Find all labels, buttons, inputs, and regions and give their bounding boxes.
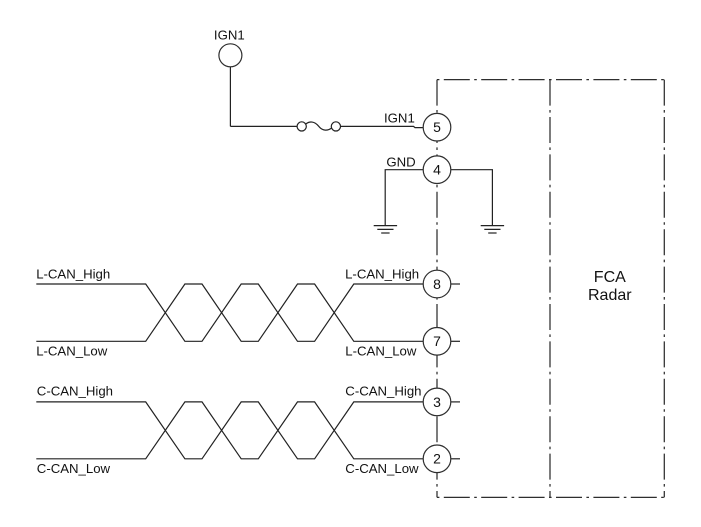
- pin 8: [423, 270, 451, 298]
- pin 4: [423, 156, 451, 184]
- svg-text:Radar: Radar: [588, 287, 632, 304]
- svg-text:IGN1: IGN1: [214, 27, 245, 42]
- svg-text:C-CAN_High: C-CAN_High: [37, 383, 113, 398]
- FCA Radar module outline (dash-dot box): [437, 80, 664, 498]
- power source IGN1 circle: [219, 44, 242, 67]
- wire IGN1 down: [229, 67, 231, 127]
- svg-text:IGN1: IGN1: [384, 111, 415, 126]
- wire stub pin 3: [451, 401, 460, 403]
- wire C-CAN_Low (twisted pair lower): [36, 402, 423, 459]
- pin 3: [423, 388, 451, 416]
- wire L-CAN_Low (twisted pair lower): [36, 284, 423, 341]
- fuse F1 (fusible link): [297, 122, 340, 131]
- svg-text:C-CAN_Low: C-CAN_Low: [345, 461, 419, 476]
- wire fuse to pin 5: [341, 126, 424, 127]
- wire stub pin 7: [451, 340, 460, 342]
- label FCA Radar: [588, 269, 632, 304]
- svg-text:L-CAN_High: L-CAN_High: [345, 267, 419, 282]
- ground (right): [481, 226, 504, 233]
- svg-text:3: 3: [433, 394, 441, 410]
- wire L-CAN_High (twisted pair upper): [36, 284, 423, 341]
- pin 2: [423, 445, 451, 473]
- FCA Radar connector divider (dash-dot): [549, 80, 551, 498]
- svg-text:FCA: FCA: [594, 269, 626, 286]
- pin 5: [423, 113, 451, 141]
- svg-text:L-CAN_Low: L-CAN_Low: [345, 343, 417, 358]
- svg-text:L-CAN_Low: L-CAN_Low: [36, 343, 108, 358]
- pin 7: [423, 328, 451, 356]
- wire stub pin 2: [451, 458, 460, 460]
- svg-text:L-CAN_High: L-CAN_High: [36, 267, 110, 282]
- wire IGN1 to fuse: [230, 125, 297, 127]
- svg-text:8: 8: [433, 276, 441, 292]
- svg-text:2: 2: [433, 451, 441, 467]
- wire pin 4 to right ground: [451, 170, 493, 226]
- wire stub pin 8: [451, 283, 460, 285]
- svg-text:4: 4: [433, 162, 441, 178]
- svg-text:GND: GND: [386, 154, 415, 169]
- svg-text:5: 5: [433, 119, 441, 135]
- ground (left): [374, 226, 397, 233]
- wire C-CAN_High (twisted pair upper): [36, 402, 423, 459]
- svg-text:C-CAN_Low: C-CAN_Low: [37, 461, 111, 476]
- svg-text:7: 7: [433, 333, 441, 349]
- wire pin 4 to left ground: [385, 170, 423, 226]
- svg-text:C-CAN_High: C-CAN_High: [345, 383, 421, 398]
